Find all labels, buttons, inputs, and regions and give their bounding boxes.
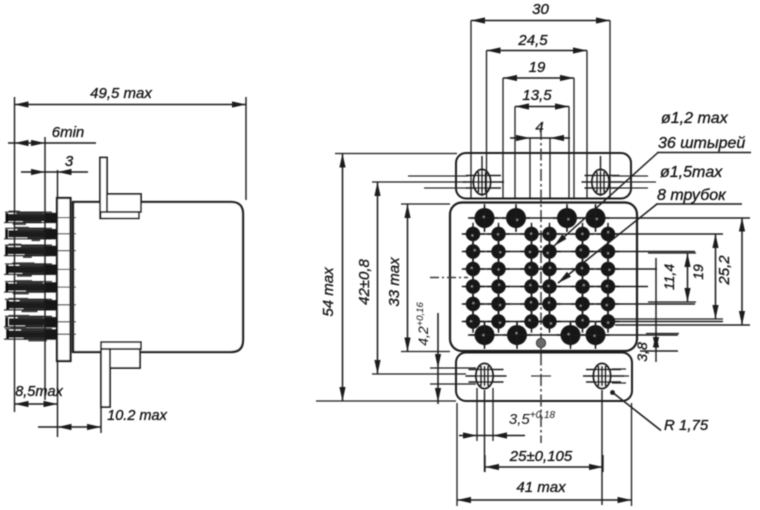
svg-text:25±0,105: 25±0,105 xyxy=(509,448,573,465)
svg-text:33 max: 33 max xyxy=(386,257,403,307)
svg-text:41 max: 41 max xyxy=(516,479,566,496)
svg-text:30: 30 xyxy=(532,1,549,18)
svg-text:19: 19 xyxy=(690,264,706,280)
svg-text:R 1,75: R 1,75 xyxy=(664,417,709,434)
svg-text:42±0,8: 42±0,8 xyxy=(356,258,373,304)
svg-text:54 max: 54 max xyxy=(320,267,337,317)
svg-text:ø1,2 max: ø1,2 max xyxy=(661,110,729,127)
svg-text:19: 19 xyxy=(529,59,546,76)
svg-text:6min: 6min xyxy=(52,124,85,141)
svg-text:3,8: 3,8 xyxy=(634,342,650,362)
svg-text:49,5 max: 49,5 max xyxy=(90,85,152,102)
svg-text:3: 3 xyxy=(65,153,74,170)
svg-text:11,4: 11,4 xyxy=(661,264,677,290)
svg-text:4: 4 xyxy=(535,119,543,136)
svg-text:8 трубок: 8 трубок xyxy=(657,187,727,204)
svg-text:10.2 max: 10.2 max xyxy=(107,408,167,424)
svg-text:ø1,5max: ø1,5max xyxy=(660,164,723,181)
svg-text:36 штырей: 36 штырей xyxy=(658,135,745,152)
svg-text:24,5: 24,5 xyxy=(517,32,548,49)
svg-text:13,5: 13,5 xyxy=(522,87,552,104)
svg-text:8,5max: 8,5max xyxy=(15,384,63,400)
svg-text:25,2: 25,2 xyxy=(716,255,733,286)
